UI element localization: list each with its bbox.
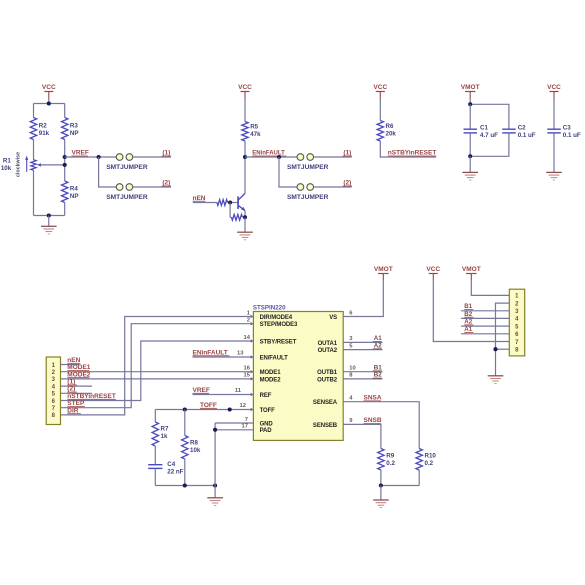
svg-text:SNSA: SNSA [364, 395, 382, 402]
resistor Q1 base-emitter pulldown [230, 216, 231, 218]
svg-text:12: 12 [240, 403, 246, 409]
svg-text:13: 13 [237, 351, 244, 357]
svg-text:7: 7 [245, 417, 248, 423]
svg-text:VMOT: VMOT [461, 84, 480, 91]
svg-text:MODE1: MODE1 [260, 370, 282, 376]
wire TOFF down to R7 [154, 410, 156, 423]
svg-text:0.1 uF: 0.1 uF [563, 132, 581, 139]
node sense rail junction [379, 483, 383, 487]
svg-text:(1): (1) [67, 379, 75, 386]
svg-text:C4: C4 [167, 461, 175, 468]
svg-text:SNSB: SNSB [364, 417, 382, 424]
svg-text:10k: 10k [190, 447, 201, 454]
svg-text:R4: R4 [70, 186, 78, 193]
wire pin10 OUTB1 stub [343, 371, 382, 373]
svg-text:nEN: nEN [193, 195, 206, 202]
svg-text:VCC: VCC [426, 266, 440, 273]
connector J1 body (control header) [46, 357, 60, 425]
svg-text:R2: R2 [39, 122, 47, 129]
resistor R8 10k [182, 436, 188, 460]
wire pin15 MODE2 net [61, 378, 254, 380]
wire pin1 DIR net [61, 317, 254, 415]
svg-text:17: 17 [242, 424, 248, 430]
node emitter junction [243, 215, 247, 219]
svg-text:16: 16 [244, 366, 251, 372]
wire R9 to sense rail [380, 470, 382, 486]
resistor R2 91k [30, 118, 36, 140]
wire pin17 PAD [215, 429, 253, 431]
svg-text:nEN: nEN [67, 357, 80, 364]
svg-text:A1: A1 [464, 326, 472, 333]
capacitor C4 22 nF [148, 464, 162, 466]
svg-text:OUTA1: OUTA1 [318, 341, 338, 347]
wire VMOT cap top rail [470, 104, 509, 129]
svg-text:SMTJUMPER: SMTJUMPER [106, 164, 148, 171]
svg-text:SMTJUMPER: SMTJUMPER [106, 194, 148, 201]
svg-text:R1: R1 [3, 157, 11, 164]
svg-text:91k: 91k [39, 130, 50, 137]
svg-text:VREF: VREF [193, 387, 210, 394]
wire VMOT to C1 [469, 104, 471, 129]
wire base pulldown [229, 203, 231, 218]
wire J2 pin 4 B2 stub [461, 317, 509, 319]
svg-text:47k: 47k [250, 131, 261, 138]
svg-text:VCC: VCC [547, 84, 561, 91]
svg-text:STEP: STEP [67, 400, 85, 407]
svg-text:R7: R7 [161, 426, 169, 433]
node cap bottom junction [468, 154, 472, 158]
svg-text:(2): (2) [343, 180, 351, 187]
wire J2 pin 3 B1 stub [461, 310, 509, 312]
wire R6 to nSTBYinRESET [380, 141, 436, 157]
wire TOFF bottom rail [155, 485, 215, 487]
resistor R6 20k [377, 121, 383, 142]
smt jumper pads (VREF row 1) [116, 154, 123, 161]
wire J2 pin 2 to ground rail [496, 303, 510, 376]
wire pin8 OUTB2 stub [343, 378, 382, 380]
node PAD junction [213, 428, 217, 432]
wire J2 pin 8 stub [496, 348, 510, 350]
capacitor C2 0.1 uF [502, 128, 516, 130]
wire J1 pin 5 (2) stub [61, 392, 93, 394]
svg-text:VMOT: VMOT [374, 266, 393, 273]
svg-text:R5: R5 [250, 124, 258, 131]
svg-text:A2: A2 [464, 319, 472, 326]
wire rail to ground [214, 486, 216, 498]
node cap top junction [468, 102, 472, 106]
wire pin13 ENinFAULT stub [193, 356, 254, 358]
op IC U1 STSPIN220 body [253, 312, 343, 441]
svg-text:NP: NP [70, 193, 79, 200]
svg-text:TOFF: TOFF [260, 408, 276, 414]
wire base resistor to transistor [228, 202, 238, 204]
wire pin7 GND [215, 422, 253, 424]
wire caps to ground [469, 156, 471, 172]
wire bottom rail of divider [34, 215, 65, 217]
node R3 bottom VREF junction [63, 155, 67, 159]
wire R8 to bottom rail [184, 459, 186, 486]
node bottom rail R8 [183, 483, 187, 487]
connector J2 body (motor header) [509, 289, 524, 356]
node bottom rail GND branch [213, 483, 217, 487]
wire pin3 OUTA1 stub [343, 341, 382, 343]
svg-text:A1: A1 [374, 335, 382, 342]
wire sense rail to ground [380, 486, 382, 501]
resistor R10 0.2 [416, 449, 422, 471]
capacitor C3 0.1 uF [547, 128, 561, 130]
svg-text:OUTB2: OUTB2 [317, 377, 338, 383]
node VREF branch junction [97, 155, 101, 159]
wire R7 to C4 [154, 446, 156, 465]
potentiometer R1 10k [31, 160, 36, 171]
svg-text:SMTJUMPER: SMTJUMPER [287, 164, 329, 171]
svg-text:(1): (1) [343, 150, 351, 157]
wire GND/PAD vertical [214, 423, 216, 486]
node TOFF joint B [228, 407, 232, 411]
wire J2 pin 5 A2 stub [461, 325, 509, 327]
wire VREF branch down to jumper 2 [99, 157, 117, 187]
svg-text:MODE1: MODE1 [67, 364, 91, 371]
svg-text:14: 14 [244, 335, 251, 341]
node ENinFAULT branch junction [277, 155, 281, 159]
svg-text:B2: B2 [374, 372, 382, 379]
wire ENinFAULT to jumpers [245, 156, 297, 158]
wire pin9 SENSEB to R9 [343, 424, 381, 448]
wire R8 branch [184, 410, 186, 436]
svg-text:C3: C3 [563, 125, 571, 132]
wire emitter down [244, 211, 246, 218]
wire nEN to base resistor [193, 202, 217, 204]
wire C3 to ground [553, 133, 555, 172]
resistor R9 0.2 [378, 449, 384, 471]
wire VCC top rail [34, 103, 65, 105]
wire left branch R2 to R1 [33, 104, 35, 118]
node VCC rail junction [47, 101, 51, 105]
svg-text:VCC: VCC [42, 84, 56, 91]
svg-text:0.1 uF: 0.1 uF [518, 132, 536, 139]
wire VREF to jumpers [65, 156, 117, 158]
svg-text:TOFF: TOFF [200, 402, 217, 409]
svg-text:22 nF: 22 nF [167, 469, 183, 476]
svg-text:0.2: 0.2 [386, 460, 395, 467]
wire pin4 SENSEA to R10 [343, 402, 419, 449]
resistor R5 47k [242, 122, 248, 142]
svg-text:(2): (2) [67, 386, 75, 393]
svg-text:C1: C1 [480, 125, 488, 132]
svg-text:nSTBYinRESET: nSTBYinRESET [67, 393, 116, 400]
svg-text:20k: 20k [386, 131, 397, 138]
svg-text:VREF: VREF [72, 150, 89, 157]
svg-text:SENSEA: SENSEA [313, 400, 338, 406]
node base junction [228, 200, 232, 204]
svg-text:NP: NP [70, 130, 79, 137]
transistor Q1 NPN [237, 196, 239, 209]
svg-text:OUTA2: OUTA2 [318, 348, 338, 354]
resistor R3 NP [62, 118, 68, 140]
capacitor C1 4.7 uF [464, 128, 478, 130]
svg-text:R9: R9 [386, 453, 394, 460]
wire pin11 VREF stub [193, 394, 254, 396]
ground (TOFF network) [207, 497, 223, 499]
wire fault jumper1 to (1) [314, 156, 352, 158]
svg-text:(2): (2) [162, 180, 170, 187]
svg-text:VMOT: VMOT [462, 266, 481, 273]
resistor Q1 base [217, 200, 228, 206]
svg-text:R8: R8 [190, 439, 198, 446]
wire cap bottom rail [469, 133, 471, 156]
ground (VREF divider) [41, 225, 57, 227]
wire divider to ground [48, 216, 50, 227]
svg-text:DIR/MODE4: DIR/MODE4 [260, 315, 293, 321]
ground (bulk caps) [462, 171, 478, 173]
svg-text:R10: R10 [425, 453, 437, 460]
wire C4 to bottom rail [154, 469, 156, 486]
ground (sense resistors) [373, 499, 389, 501]
svg-text:1k: 1k [161, 433, 168, 440]
ground (motor header) [488, 375, 504, 377]
svg-text:R3: R3 [70, 122, 78, 129]
ground (C3) [546, 171, 562, 173]
wire fault branch down to jumper 2 [279, 157, 297, 187]
svg-text:PAD: PAD [260, 428, 273, 434]
wire pin12 TOFF net [155, 409, 253, 411]
svg-text:EN/FAULT: EN/FAULT [260, 355, 289, 361]
wire pin2 STEP net [61, 324, 254, 408]
wire jumper2 to (2) [133, 186, 171, 188]
ground (transistor emitter) [237, 231, 253, 233]
wire VCC to J2 pin 7 [433, 281, 509, 342]
wire jumper1 to (1) [133, 156, 171, 158]
svg-text:SENSEB: SENSEB [313, 423, 338, 429]
svg-text:STSPIN220: STSPIN220 [253, 304, 286, 311]
svg-text:ENinFAULT: ENinFAULT [193, 349, 228, 356]
svg-text:R6: R6 [386, 123, 394, 130]
svg-text:15: 15 [244, 373, 251, 379]
node ENinFAULT junction [243, 155, 247, 159]
svg-text:MODE2: MODE2 [260, 377, 282, 383]
svg-text:OUTB1: OUTB1 [317, 370, 338, 376]
svg-text:MODE2: MODE2 [67, 371, 91, 378]
svg-text:A2: A2 [374, 342, 382, 349]
svg-text:2: 2 [247, 318, 250, 324]
node TOFF joint A [183, 407, 187, 411]
svg-text:SMTJUMPER: SMTJUMPER [287, 194, 329, 201]
svg-text:0.2: 0.2 [425, 460, 434, 467]
svg-text:clockwise: clockwise [16, 152, 22, 177]
smt jumper pads (fault row 1) [297, 154, 304, 161]
wire sense bottom rail [381, 485, 419, 487]
svg-text:STBY/RESET: STBY/RESET [260, 339, 297, 345]
wire pin14 nSTBYinRESET net [61, 341, 254, 401]
resistor R7 1k [152, 422, 158, 446]
wire emitter to ground [244, 217, 246, 232]
svg-text:4.7 uF: 4.7 uF [480, 132, 498, 139]
wire VMOT to VS pin 6 [343, 281, 383, 317]
wire J1 pin 1 nEN stub [61, 364, 80, 366]
svg-text:B1: B1 [374, 365, 382, 372]
wire J2 pin 6 A1 stub [461, 333, 509, 335]
svg-text:STEP/MODE3: STEP/MODE3 [260, 322, 298, 328]
svg-text:nSTBYinRESET: nSTBYinRESET [388, 150, 437, 157]
svg-text:GND: GND [260, 421, 274, 427]
svg-text:REF: REF [260, 393, 272, 399]
node J2 ground junction [493, 347, 497, 351]
svg-text:B1: B1 [464, 303, 472, 310]
node bottom rail junction [47, 213, 51, 217]
svg-text:(1): (1) [162, 150, 170, 157]
svg-text:B2: B2 [464, 311, 472, 318]
svg-text:VCC: VCC [373, 84, 387, 91]
svg-text:VCC: VCC [238, 84, 252, 91]
wire R5 to transistor collector [244, 141, 246, 193]
svg-text:10k: 10k [1, 165, 12, 172]
resistor R4 NP [62, 181, 68, 203]
wire fault jumper2 to (2) [314, 186, 352, 188]
smt jumper pads (VREF row 2) [116, 184, 123, 191]
svg-text:VS: VS [329, 315, 337, 321]
node R1 wiper junction [63, 163, 67, 167]
svg-text:C2: C2 [518, 125, 526, 132]
wire J1 pin 4 (1) stub [61, 385, 93, 387]
wire R10 to sense rail [418, 470, 420, 486]
svg-text:DIR: DIR [67, 407, 79, 414]
smt jumper pads (fault row 2) [297, 184, 304, 191]
svg-text:11: 11 [235, 388, 242, 394]
wire pin5 OUTA2 stub [343, 349, 382, 351]
svg-text:10: 10 [349, 366, 355, 372]
wire pin16 MODE1 net [61, 371, 254, 373]
wire VMOT to J2 pin 1 [471, 281, 509, 296]
wire right branch R3 to R4 [64, 104, 66, 118]
